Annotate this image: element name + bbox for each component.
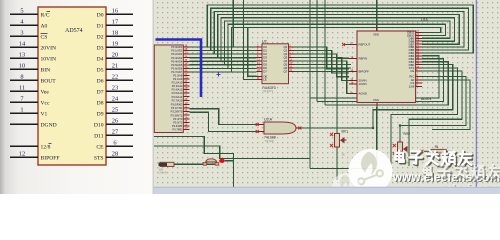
wire RV1 bottom [336,147,338,180]
pin mark rv1 t1 [330,133,333,136]
pin BIN left line [10,68,38,70]
pin BOUT left line [10,79,38,81]
MCU pin P3.0/RXD [183,104,189,106]
watermark ghost circle [332,173,360,201]
wire from top C [309,0,311,169]
ADC pin DB11 [416,31,422,33]
pin D5 right line [106,68,133,70]
wire P0.2 to latch [190,53,257,55]
MCU pin P2.3/A11 [183,85,189,87]
svg-text:D3: D3 [97,45,104,51]
pin mark r1 a [420,150,423,153]
wire from top D [316,0,318,102]
svg-text:10: 10 [19,63,25,70]
svg-text:CS: CS [41,34,48,40]
svg-text:24: 24 [112,96,119,103]
ADC pin CS [416,82,422,84]
pin mark xtal b [216,163,219,166]
pin D1 right line [106,24,133,26]
MCU pin P2.2/A10 [183,81,189,83]
watermark text main [395,150,472,166]
wire P0.1 to latch [190,50,257,52]
svg-text:28: 28 [112,151,118,158]
MCU pin P3.3/INT1 [183,114,189,116]
svg-text:P0.0/AD0: P0.0/AD0 [171,45,183,49]
ADC pin VDD top [376,27,378,31]
svg-text:74LS08: 74LS08 [264,136,276,140]
U2 pin D5 [256,64,262,66]
origin marker [217,73,221,77]
svg-text:6: 6 [113,140,116,147]
pin CE right line [106,145,133,147]
pin 10VIN left line [10,57,38,59]
wire from top A [232,0,234,47]
wire RC wrap [400,76,466,142]
svg-text:Vcc: Vcc [41,100,51,106]
U2 pin Q4 [289,60,295,62]
ADC pin DB7 [416,43,422,45]
pin mark gate in1 [256,123,259,126]
ADC U16 AD574 body [357,31,416,103]
MCU pin P3.5/T1 [183,121,189,123]
MCU pin P0.2/AD2 [183,53,189,55]
svg-text:P3.1/TXD: P3.1/TXD [171,106,182,110]
svg-text:14: 14 [19,41,26,48]
pin STS right line [106,156,133,158]
wire from top E [324,0,326,105]
wire from top B [243,0,256,80]
watermark url ghost [419,183,500,195]
svg-text:P0.3/AD3: P0.3/AD3 [171,56,183,60]
wire Q0 to ADC [295,47,349,69]
panel divider [153,0,155,194]
svg-text:10VIN: 10VIN [359,82,367,86]
LED D2 red dot [219,159,225,163]
wire A0 wrap [422,80,470,130]
U2 pin D4 [256,60,262,62]
pin mark rv2 t2 [393,152,396,155]
resistor R1 [424,145,453,153]
wire DB11 wrap to gate output [299,65,453,128]
wire bus D2 [214,11,464,54]
wire P0.0 to latch [190,46,257,48]
ADC pin DB0 [416,64,422,66]
wire DB10 wrap [325,62,448,105]
wire P0.6 to latch [190,67,257,69]
svg-text:U3:A: U3:A [264,118,273,122]
svg-text:10VIN: 10VIN [41,56,57,62]
pin 128 left line [10,145,38,147]
MCU pin P3.7/RD [183,129,189,131]
ADC pin A0 [416,79,422,81]
svg-text:5: 5 [20,8,23,15]
svg-text:BIN: BIN [41,67,51,73]
svg-text:74LS373: 74LS373 [263,89,274,93]
wire Q5 [295,64,351,66]
pin D0 right line [106,13,133,15]
U2 pin Q6 [289,67,295,69]
svg-text:AD574: AD574 [421,97,431,101]
pin D7 right line [106,90,133,92]
watermark url main [392,172,500,185]
wire Q3 to ADC [295,58,349,81]
MCU pin P0.5/AD5 [183,64,189,66]
svg-text:D9: D9 [97,111,104,117]
svg-text:P3.4/T0: P3.4/T0 [173,117,183,121]
svg-text:REFOUT: REFOUT [359,43,371,47]
schematic background [154,0,500,187]
U2 pin Q7 [289,71,295,73]
pin R/C left line [10,13,38,15]
U2 pin D6 [256,67,262,69]
svg-text:20: 20 [112,52,118,59]
svg-text:Q7: Q7 [283,70,287,74]
svg-text:20VIN: 20VIN [41,45,57,51]
U2 pin D0 [256,46,262,48]
ADC pin DB5 [416,49,422,51]
ADC pin DB9 [416,37,422,39]
svg-text:17: 17 [112,19,119,26]
svg-text:DGND: DGND [41,122,57,128]
pin Vee left line [10,90,38,92]
MCU pin P3.1/TXD [183,107,189,109]
ADC pin VSS bottom [376,103,378,108]
svg-text:VSS: VSS [373,98,379,102]
wire REFIN to RV1 [337,58,349,133]
watermark logo circle [349,149,393,193]
svg-text:V1: V1 [41,111,48,117]
svg-text:P0.5/AD5: P0.5/AD5 [171,63,183,67]
wire bus D3 [218,15,460,58]
MCU pin P0.3/AD3 [183,57,189,59]
wire P3 to gate B [190,112,258,131]
ADC pin DB1 [416,61,422,63]
svg-text:VDD: VDD [373,33,379,37]
pin mark refout end [342,43,345,46]
scrollbar band [154,187,500,194]
ADC pin AGND [349,93,357,95]
pin D8 right line [106,101,133,103]
latch U2 74LS373 body [262,44,289,84]
ADC pin STS [416,67,422,69]
svg-text:25: 25 [112,107,118,114]
ADC pin DB8 [416,40,422,42]
svg-text:P2.0/A8: P2.0/A8 [173,73,183,77]
svg-text:D10: D10 [94,122,104,128]
U2 pin LE [256,79,262,81]
pin Vcc left line [10,101,38,103]
wire resistor chain [174,163,204,165]
svg-text:P3.0/RXD: P3.0/RXD [171,103,183,107]
wire bus D6 [228,24,445,68]
svg-text:P2.1/A9: P2.1/A9 [173,77,183,81]
svg-text:P2.2/A10: P2.2/A10 [172,81,183,85]
MCU pin P2.0/A8 [183,74,189,76]
MCU pin P3.2/INT0 [183,111,189,113]
ADC pin 12/8 [416,85,422,87]
purple net line [475,0,477,187]
wire bottom left A [154,137,233,188]
MCU pin P0.4/AD4 [183,60,189,62]
U2 pin Q5 [289,64,295,66]
svg-text:CE: CE [96,144,104,150]
pin mark xtal a [203,163,206,166]
svg-text:P2.3/A11: P2.3/A11 [172,84,183,88]
pin BIPOFF left line [10,156,38,158]
ADC pin CE [416,70,422,72]
wire VDD from top [376,0,378,31]
MCU pin P3.4/T0 [183,118,189,120]
svg-text:D5: D5 [97,67,104,73]
svg-text:U16: U16 [421,18,428,22]
wire bus D4 [221,18,455,62]
svg-text:P3.3/INT1: P3.3/INT1 [171,113,183,117]
svg-text:D7: D7 [263,70,267,74]
pin D9 right line [106,112,133,114]
svg-text:CE: CE [410,69,414,73]
MCU pin P2.7/A15 [183,99,189,101]
svg-text:BOUT: BOUT [41,78,57,84]
wire P0.3 to latch [190,57,257,59]
svg-text:D11: D11 [94,133,104,139]
MCU pin P0.1/AD1 [183,50,189,52]
U2 pin Q0 [289,46,295,48]
svg-text:STS: STS [94,155,104,161]
U2 pin D3 [256,57,262,59]
left panel background [0,0,154,194]
svg-text:Vee: Vee [41,89,50,95]
svg-text:8: 8 [20,74,23,81]
svg-text:P2.4/A12: P2.4/A12 [172,88,183,92]
svg-text:D4: D4 [97,56,104,62]
ADC pin 10VIN [349,83,357,85]
junction [372,127,374,129]
pin mark gate in2 [256,130,259,133]
svg-text:11: 11 [19,85,25,92]
diode D1 [203,159,218,165]
ADC pin REFIN [349,57,357,59]
svg-text:12: 12 [19,151,25,158]
wire OE [248,27,257,76]
MCU pin P3.6/WR [183,125,189,127]
MCU pin P0.0/AD0 [183,46,189,48]
MCU pin P0.6/AD6 [183,67,189,69]
svg-text:AD574: AD574 [65,28,83,34]
U2 pin OE [256,75,262,77]
svg-text:R/C: R/C [41,12,50,18]
svg-text:74LS08: 74LS08 [265,139,275,143]
U2 pin D1 [256,50,262,52]
wire after red dot [225,160,234,162]
svg-text:P0.4/AD4: P0.4/AD4 [171,59,183,63]
pin 20VIN left line [10,46,38,48]
svg-text:RV2: RV2 [404,132,411,136]
U2 pin Q1 [289,50,295,52]
wire DB9 wrap [317,59,444,102]
svg-text:D6: D6 [97,78,104,84]
pin mark rv1 t2 [330,144,333,147]
svg-text:1N4148: 1N4148 [159,172,168,175]
svg-text:LE: LE [263,78,267,82]
svg-text:19: 19 [112,41,118,48]
wire bus D5 [225,21,450,65]
pin D6 right line [106,79,133,81]
svg-text:P2.7/A15: P2.7/A15 [172,98,183,102]
selection highlight [156,40,202,98]
pin D3 right line [106,46,133,48]
svg-text:A0: A0 [41,23,48,29]
wire STS wrap [391,68,457,166]
svg-text:P3.2/INT0: P3.2/INT0 [171,110,183,114]
MCU pin P2.4/A12 [183,89,189,91]
wire REFOUT stub [344,44,350,46]
MCU pin P2.6/A14 [183,96,189,98]
pin DGND left line [10,123,38,125]
svg-text:27: 27 [112,129,119,136]
wire Q4 [295,61,349,94]
wire bus D1 [211,8,469,50]
svg-text:16: 16 [112,8,118,15]
svg-text:P2.6/A14: P2.6/A14 [172,95,183,99]
svg-text:12/8: 12/8 [41,144,51,150]
svg-text:P0.6/AD6: P0.6/AD6 [171,67,183,71]
svg-text:BIPOFF: BIPOFF [359,70,370,74]
MCU pin P2.5/A13 [183,92,189,94]
U2 pin D2 [256,53,262,55]
svg-text:26: 26 [112,118,118,125]
wire P3 to gate A [190,109,258,125]
potentiometer RV1 [335,129,349,156]
ADC pin BIPOFF [349,71,357,73]
svg-text:P0.1/AD1: P0.1/AD1 [171,49,183,53]
svg-text:P2.5/A13: P2.5/A13 [172,91,183,95]
ADC pin REFOUT [349,44,357,46]
svg-text:13: 13 [19,52,25,59]
wire P0.5 to latch [190,64,257,66]
wire Q2 to ADC [295,54,349,77]
gate input pin 2 [257,131,264,133]
ADC pin DB4 [416,52,422,54]
svg-text:RV1: RV1 [342,129,349,133]
junction [399,124,401,126]
svg-text:3: 3 [20,30,23,37]
wire DB8 wrap [310,56,439,98]
pin D4 right line [106,57,133,59]
pin mark rv2 t1 [393,144,396,147]
potentiometer RV2 [398,132,411,156]
svg-text:D2: D2 [97,34,104,40]
IC body AD574 (left diagram) [38,7,106,165]
ADC pin DB6 [416,46,422,48]
wire P0.4 to latch [190,60,257,62]
pin V1 left line [10,112,38,114]
svg-text:22: 22 [112,74,118,81]
MCU pin P0.7/AD7 [183,71,189,73]
svg-text:U2: U2 [262,40,267,44]
pin mark gate out [298,127,301,130]
U2 pin D7 [256,71,262,73]
watermark text ghost [423,165,500,180]
pin D11 right line [106,134,133,136]
wire Q6 [295,67,351,69]
svg-text:REFIN: REFIN [359,56,368,60]
svg-text:D7: D7 [97,89,104,95]
svg-text:P0.2/AD2: P0.2/AD2 [171,52,183,56]
gate U3:A body [264,122,296,134]
wire CE wrap [409,71,462,166]
U2 pin Q2 [289,53,295,55]
wire ADC bottom pin [310,107,377,169]
ADC pin DB10 [416,34,422,36]
svg-text:1K: 1K [342,153,346,157]
svg-text:AD574: AD574 [422,101,430,105]
ADC pin DB2 [416,58,422,60]
pin D2 right line [106,35,133,37]
svg-text:P3.5/T1: P3.5/T1 [173,120,183,124]
svg-text:18: 18 [112,30,118,37]
ADC pin 20VIN [349,79,357,81]
svg-text:74LS373: 74LS373 [262,86,276,90]
wire bus D7 [232,27,441,72]
MCU U1 body (cropped) [154,45,183,133]
svg-text:1: 1 [20,107,23,114]
svg-text:D0: D0 [97,12,104,18]
wire between pads [207,163,216,165]
gate input pin 1 [257,124,264,126]
svg-text:D1: D1 [97,23,104,29]
wire bottom left B [154,146,310,159]
wire Q7 [295,71,351,73]
MCU pin P2.1/A9 [183,78,189,80]
svg-text:12/8: 12/8 [409,84,415,88]
wire P0.7 to latch [190,71,257,73]
svg-text:P3.7/RD: P3.7/RD [172,128,182,132]
svg-text:BIPOFF: BIPOFF [41,155,60,161]
svg-text:AGND: AGND [359,92,367,96]
svg-text:23: 23 [112,85,118,92]
svg-text:21: 21 [112,63,118,70]
resistor R2 [159,162,175,174]
pin D10 right line [106,123,133,125]
ADC pin DB3 [416,55,422,57]
svg-text:P3.6/WR: P3.6/WR [172,124,183,128]
wire bus D0 [207,5,473,53]
svg-text:D8: D8 [97,100,104,106]
wire Q1 to ADC [295,51,349,73]
pin CS left line [10,35,38,37]
U2 pin Q3 [289,57,295,59]
pin A0 left line [10,24,38,26]
ADC pin R/C [416,75,422,77]
svg-text:R1: R1 [435,145,439,149]
gate output pin 3 [296,127,301,129]
